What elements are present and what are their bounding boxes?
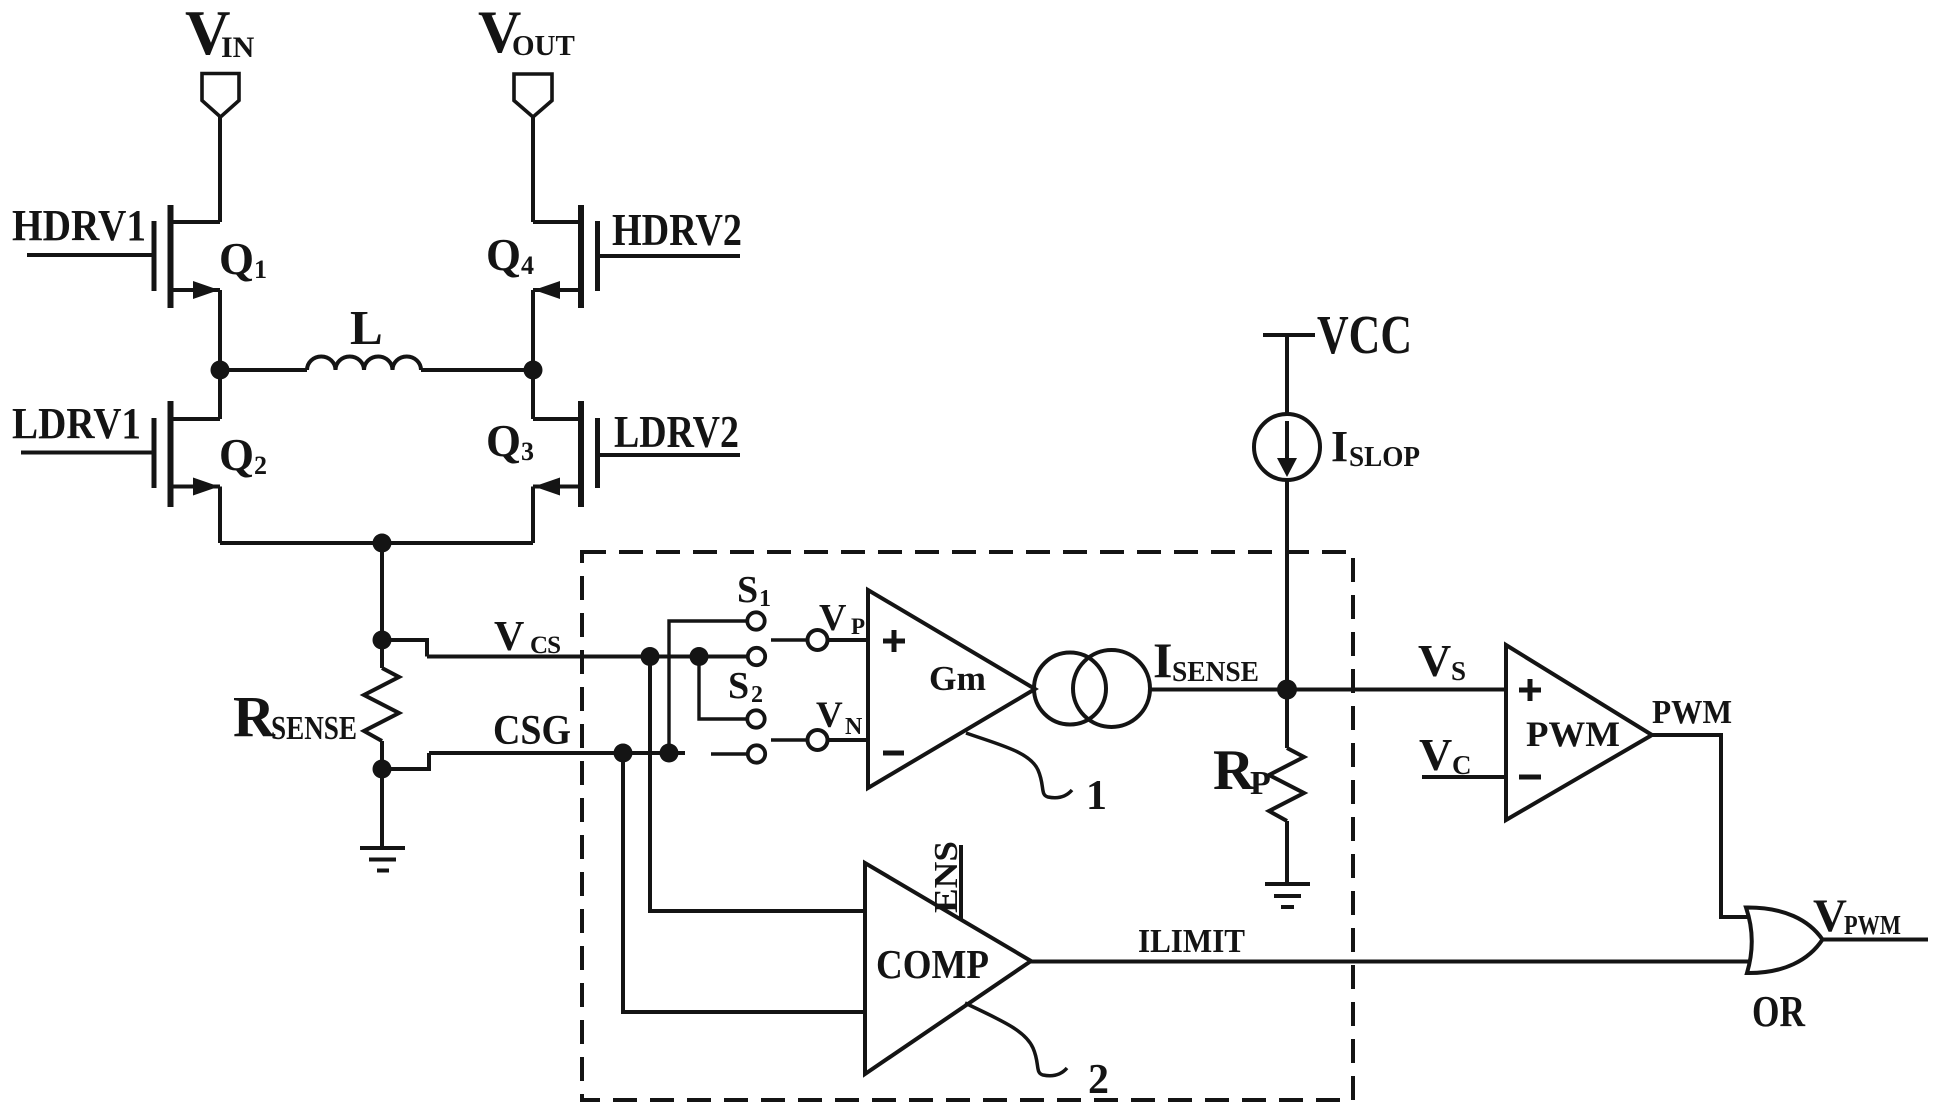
wire CSG to COMP minus: [623, 753, 865, 1012]
label S2: [728, 665, 763, 708]
current source pair circle left: [1034, 653, 1106, 725]
svg-text:V: V: [1813, 890, 1847, 942]
wire ISLOP to VS node: [1285, 480, 1289, 690]
svg-text:LDRV1: LDRV1: [12, 399, 141, 448]
svg-text:1: 1: [254, 255, 267, 284]
label VC: [1419, 729, 1472, 780]
callout squiggle 2: [965, 1003, 1067, 1076]
switch S1 pole wire: [771, 638, 807, 642]
inductor L: [220, 357, 533, 371]
comparator PWM: [1506, 645, 1652, 820]
terminal VIN: [202, 74, 239, 118]
switch S2 contact: [747, 710, 764, 727]
wire bottom rail: [220, 541, 533, 545]
svg-text:SLOP: SLOP: [1349, 442, 1420, 473]
label VN: [816, 695, 863, 740]
wire HDRV2 gate: [598, 254, 741, 258]
wire VOUT to Q4 drain: [531, 116, 535, 222]
wire CSG to S1 contact: [669, 621, 747, 753]
svg-text:P: P: [1250, 765, 1271, 802]
svg-text:PWM: PWM: [1652, 694, 1732, 731]
svg-text:1: 1: [1086, 773, 1107, 819]
label VOUT: [478, 0, 575, 65]
svg-text:4: 4: [521, 251, 534, 280]
switch contact VCS row: [748, 648, 765, 665]
label OR: [1752, 987, 1806, 1036]
node SW1 junction: [211, 361, 230, 380]
op-amp Gm: [868, 590, 1035, 788]
svg-text:R: R: [233, 684, 276, 749]
svg-text:HDRV2: HDRV2: [612, 204, 742, 255]
wire VCC to ISLOP: [1285, 335, 1289, 414]
svg-text:R: R: [1213, 739, 1255, 802]
label 2: [1088, 1057, 1109, 1103]
label HDRV2: [612, 204, 742, 255]
switch S1 pole circle VP: [808, 630, 828, 650]
label RP: [1213, 739, 1271, 802]
ground RSENSE: [360, 848, 405, 871]
svg-text:CS: CS: [530, 632, 561, 659]
svg-text:PWM: PWM: [1526, 714, 1620, 754]
wire VCS line: [427, 655, 748, 659]
switch S2 pole wire: [771, 738, 807, 742]
svg-text:Q: Q: [486, 416, 521, 466]
svg-text:1: 1: [759, 586, 771, 612]
wire stub bottom contact: [711, 752, 747, 755]
svg-text:ILIMIT: ILIMIT: [1138, 923, 1245, 960]
svg-text:I: I: [1331, 422, 1348, 471]
transistor Q3: [533, 370, 598, 543]
svg-text:L: L: [350, 300, 383, 355]
node CSG dot B: [660, 744, 679, 763]
svg-text:PWM: PWM: [1844, 910, 1901, 940]
resistor RSENSE: [364, 640, 399, 769]
wire CSG step: [382, 753, 429, 769]
wire rail to VCS node: [380, 543, 384, 640]
svg-text:HDRV1: HDRV1: [12, 201, 146, 250]
wire HDRV1 gate: [27, 253, 154, 257]
wire VPWM output: [1823, 938, 1929, 942]
switch contact bottom row: [748, 745, 765, 762]
wire VCS step: [382, 640, 427, 657]
label COMP: [876, 941, 989, 987]
label Q2: [219, 430, 267, 480]
label HDRV1: [12, 201, 146, 250]
svg-text:Q: Q: [219, 430, 254, 480]
svg-text:V: V: [494, 614, 524, 660]
transistor Q4: [533, 205, 598, 370]
svg-text:IN: IN: [221, 31, 255, 64]
label ISENSE: [1153, 632, 1259, 688]
label VPWM: [1813, 890, 1901, 942]
current source ISLOP: [1254, 414, 1320, 480]
svg-text:ENS: ENS: [928, 841, 965, 913]
label ISLOP: [1331, 422, 1420, 473]
label Q1: [219, 234, 267, 284]
svg-text:Q: Q: [486, 230, 521, 280]
label L: [350, 300, 383, 355]
label VP: [819, 597, 865, 639]
svg-text:V: V: [816, 695, 843, 736]
wire ILIMIT: [1031, 960, 1752, 964]
svg-text:2: 2: [254, 451, 267, 480]
wire RSENSE to ground: [380, 769, 384, 847]
wire VN to Gm minus: [827, 738, 868, 742]
svg-text:S: S: [737, 569, 758, 611]
node CSG dot A: [614, 744, 633, 763]
label CSG: [493, 708, 571, 754]
svg-text:Gm: Gm: [929, 659, 986, 698]
svg-text:SENSE: SENSE: [271, 710, 357, 747]
wire PWM output to OR: [1652, 735, 1748, 917]
PWM plus sign: [1519, 679, 1541, 701]
label Q3: [486, 416, 534, 466]
label PWM output: [1652, 694, 1732, 731]
svg-text:S: S: [1451, 656, 1466, 686]
label VS: [1418, 635, 1466, 686]
wire LDRV2 gate: [598, 453, 741, 457]
label LDRV1: [12, 399, 141, 448]
svg-text:2: 2: [1088, 1057, 1109, 1103]
svg-text:OR: OR: [1752, 987, 1806, 1036]
svg-text:V: V: [1418, 635, 1451, 686]
wire VIN to Q1 drain: [218, 115, 222, 222]
svg-text:2: 2: [751, 682, 763, 708]
transistor Q2: [154, 370, 220, 543]
label PWM inside: [1526, 714, 1620, 754]
node VS junction: [1277, 680, 1297, 700]
svg-text:V: V: [819, 597, 847, 639]
label VCC: [1317, 304, 1412, 365]
svg-text:P: P: [851, 614, 865, 639]
svg-text:CSG: CSG: [493, 708, 571, 754]
label Gm: [929, 659, 986, 698]
svg-text:COMP: COMP: [876, 941, 989, 987]
switch S2 pole circle VN: [808, 730, 828, 750]
gate OR: [1746, 907, 1823, 973]
svg-text:N: N: [845, 714, 863, 740]
wire LDRV1 gate: [21, 451, 154, 455]
terminal VOUT: [514, 74, 552, 117]
svg-text:SENSE: SENSE: [1172, 656, 1259, 688]
current source pair circle right: [1073, 650, 1150, 727]
node SW2 junction: [524, 361, 543, 380]
wire VC to PWM minus: [1422, 775, 1506, 779]
wire VS line: [1287, 688, 1506, 692]
svg-text:3: 3: [521, 437, 534, 466]
node rail junction: [373, 534, 392, 553]
label RSENSE: [233, 684, 357, 749]
node VCS junction: [373, 631, 392, 650]
label ENS: [928, 841, 965, 913]
switch S1 contact: [747, 612, 764, 629]
svg-text:S: S: [728, 665, 749, 707]
resistor RP: [1269, 748, 1304, 884]
svg-text:VCC: VCC: [1317, 304, 1412, 365]
label ILIMIT: [1138, 923, 1245, 960]
wire VCS to COMP plus: [650, 657, 865, 912]
wire CSG line: [429, 751, 685, 755]
svg-text:I: I: [1153, 632, 1172, 688]
label 1: [1086, 773, 1107, 819]
wire ISENSE: [1150, 688, 1287, 692]
wire VS node to RP: [1285, 690, 1289, 749]
label VCS: [494, 614, 561, 660]
dashed box current-sense block: [582, 552, 1353, 1100]
node CSG junction: [373, 760, 392, 779]
wire VCS to S2 contact: [699, 657, 747, 720]
comparator COMP: [865, 863, 1031, 1074]
label Q4: [486, 230, 534, 280]
power VCC bar: [1263, 333, 1315, 337]
node VCS dot B: [690, 647, 709, 666]
PWM minus sign: [1519, 775, 1541, 780]
label VIN: [185, 0, 255, 68]
COMP ENS pin: [959, 845, 963, 919]
Gm plus sign: [883, 630, 905, 652]
wire VP to Gm plus: [827, 638, 868, 642]
node VCS dot A: [641, 647, 660, 666]
callout squiggle 1: [966, 733, 1072, 798]
svg-text:V: V: [1419, 729, 1452, 780]
transistor Q1: [154, 205, 220, 370]
ground RP: [1265, 884, 1310, 907]
Gm minus sign: [883, 751, 904, 756]
svg-text:LDRV2: LDRV2: [614, 406, 739, 457]
svg-text:OUT: OUT: [512, 30, 575, 62]
svg-text:Q: Q: [219, 234, 254, 284]
label LDRV2: [614, 406, 739, 457]
label S1: [737, 569, 771, 612]
